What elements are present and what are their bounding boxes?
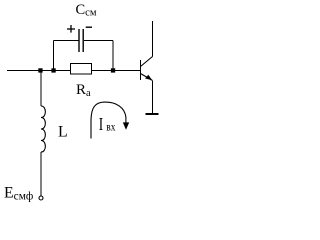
svg-text:L: L <box>58 124 68 141</box>
wire inductor branch upper <box>40 71 42 107</box>
polarity plus <box>67 25 75 33</box>
wire collector vertical <box>152 21 154 57</box>
wire inductor branch lower <box>40 152 42 196</box>
resistor Rа <box>71 64 92 75</box>
node C junction RC right <box>111 68 115 72</box>
svg-text:вх: вх <box>106 122 116 134</box>
wire RC branch top right segment <box>84 40 113 42</box>
transistor emitter arrowhead <box>145 75 152 81</box>
wire RC branch top left segment <box>54 40 79 42</box>
current arrow Iвх head <box>123 122 129 129</box>
wire main horizontal bus <box>7 70 140 72</box>
polarity minus <box>86 26 92 28</box>
wire RC branch left vertical <box>53 41 55 71</box>
capacitor Cсм plates <box>79 29 83 52</box>
terminal Eсмф circle <box>39 196 43 200</box>
transistor collector diagonal <box>141 57 153 67</box>
transistor emitter diagonal <box>141 74 153 81</box>
current arrow Iвх arc <box>91 102 126 138</box>
inductor L coil <box>41 106 45 152</box>
node A junction to inductor <box>38 68 42 72</box>
terminal emitter end bar <box>146 113 159 115</box>
node B junction RC left <box>51 68 55 72</box>
transistor base bar <box>140 60 142 80</box>
wire RC branch right vertical <box>112 41 114 71</box>
svg-text:I: I <box>99 114 103 134</box>
wire emitter vertical <box>152 80 154 113</box>
